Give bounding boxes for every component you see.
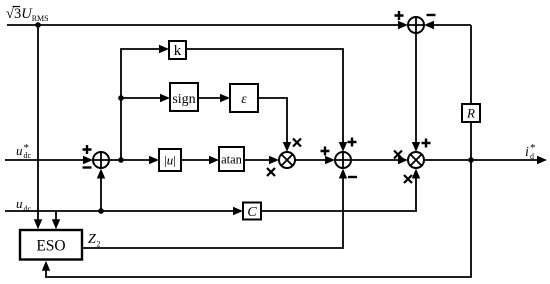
svg-text:dc: dc — [24, 151, 32, 160]
svg-text:√3URMS: √3URMS — [6, 6, 49, 23]
svg-text:ESO: ESO — [36, 238, 65, 255]
svg-text:R: R — [466, 106, 475, 121]
wire branch vertical up then right to k — [121, 49, 160, 160]
wire from sign to epsilon — [198, 97, 221, 99]
minus sign at S1 right — [427, 14, 436, 16]
block C — [243, 203, 261, 221]
wire top line from sqrt3U_RMS to summing junction S1 — [7, 24, 399, 26]
svg-text:Z: Z — [88, 232, 96, 247]
label u_dc_star — [16, 142, 32, 160]
plus sign at M2 top right — [422, 139, 431, 148]
minus sign at S2 lower left — [83, 166, 92, 168]
arrowhead into S2 left — [83, 156, 93, 164]
arrowhead into S3 left — [325, 156, 335, 164]
label u_dc — [16, 196, 32, 214]
svg-text:u: u — [16, 196, 23, 211]
arrowhead into M2 bottom pointing up — [412, 169, 420, 179]
arrowhead into S2 bottom pointing up — [97, 169, 105, 179]
wire from u_dc node up into S2 — [100, 177, 102, 211]
wire feedback from R vertical into S1 — [433, 24, 471, 26]
wire u_dc_star input line — [5, 159, 84, 161]
times sign at M1 top right — [293, 139, 301, 147]
arrowhead into atan block — [209, 156, 219, 164]
arrowhead into M1 left — [269, 156, 279, 164]
wire from C right then up into M2 bottom — [261, 176, 416, 211]
wire vertical drop from top line to ESO input 1 — [37, 25, 39, 221]
wire from u_dc line down to ESO input 2 — [55, 211, 57, 221]
arrowhead into epsilon block — [220, 94, 230, 102]
arrowhead into ESO top input 1 — [34, 219, 42, 229]
arrowhead into sign block — [160, 94, 170, 102]
label Z2 — [88, 232, 101, 249]
plus sign at S2 left — [83, 145, 92, 154]
node junction on top line — [35, 22, 41, 28]
arrowhead into M2 left — [398, 156, 408, 164]
block R — [462, 104, 480, 122]
wire from epsilon right then down into multiplier M1 — [258, 98, 287, 144]
summing junction S1 top — [408, 17, 424, 33]
arrowhead into C block — [233, 207, 243, 215]
arrowhead into M1 top — [283, 142, 291, 152]
svg-text:k: k — [174, 43, 182, 59]
times sign at M2 bottom left — [404, 175, 412, 183]
arrowhead into ESO top input 2 — [52, 219, 60, 229]
arrowhead output i_d_star — [537, 156, 547, 164]
wire from abs-u to atan — [181, 159, 210, 161]
wire from S2 to block abs-u — [109, 159, 150, 161]
node junction on branch for sign path — [118, 95, 124, 101]
arrowhead into M2 top — [412, 142, 420, 152]
svg-text:d: d — [530, 152, 534, 161]
block abs-u — [159, 149, 181, 171]
arrowhead into k block — [159, 45, 169, 53]
node junction on u_dc line — [98, 208, 104, 214]
times sign at M1 bottom left — [267, 168, 275, 176]
times sign at M2 left — [394, 151, 402, 159]
plus sign at S3 left — [321, 147, 330, 156]
wire bottom feedback from output node to ESO bottom — [46, 160, 471, 277]
multiplier M2 — [408, 152, 424, 168]
summing junction S2 — [93, 152, 109, 168]
wire output line from M2 to i_d_star — [424, 159, 538, 161]
plus sign at S3 top right — [348, 138, 357, 147]
wire from M1 to S3 — [295, 159, 326, 161]
wire from R down to output line — [470, 122, 472, 160]
block ESO — [20, 230, 82, 260]
wire from S3 to M2 — [351, 159, 399, 161]
arrowhead into S1 right pointing left — [424, 21, 434, 29]
wire from atan to M1 — [244, 159, 270, 161]
svg-text:sign: sign — [172, 92, 195, 107]
multiplier M1 — [279, 152, 295, 168]
label i_d_star — [525, 142, 536, 161]
block epsilon — [230, 84, 258, 112]
svg-text:u: u — [16, 143, 23, 158]
wire from k right then down into summing junction S3 — [186, 49, 343, 144]
arrowhead into ESO bottom pointing up — [42, 261, 50, 271]
svg-text:|u|: |u| — [164, 153, 176, 168]
label sqrt3 U_RMS — [6, 6, 49, 23]
svg-text:dc: dc — [24, 205, 32, 214]
block atan — [219, 147, 244, 171]
minus sign at S3 bottom right — [348, 176, 357, 178]
node junction on output line — [468, 157, 474, 163]
plus sign at S1 left — [395, 11, 404, 20]
svg-text:atan: atan — [221, 153, 243, 167]
block sign — [170, 83, 198, 111]
wire from ESO output right then up into S3 bottom — [82, 177, 343, 248]
summing junction S3 — [335, 152, 351, 168]
wire u_dc input line to C — [5, 210, 234, 212]
wire branch to sign block — [121, 97, 161, 99]
svg-text:ε: ε — [241, 92, 247, 107]
arrowhead into abs-u block — [149, 156, 159, 164]
arrowhead into S1 left — [398, 21, 408, 29]
wire vertical from top feedback corner down to R — [470, 25, 472, 104]
wire from S1 down to multiplier M2 — [415, 33, 417, 144]
arrowhead into S3 top — [339, 142, 347, 152]
node junction branch after S2 — [118, 157, 124, 163]
arrowhead into S3 bottom pointing up — [339, 169, 347, 179]
svg-text:i: i — [525, 145, 529, 160]
svg-text:C: C — [247, 205, 257, 220]
block k — [169, 41, 186, 59]
